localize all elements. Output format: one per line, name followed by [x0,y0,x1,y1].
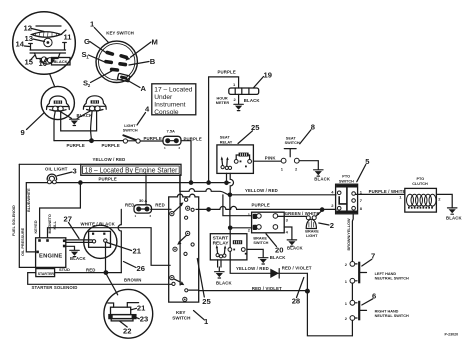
svg-text:PTO: PTO [342,175,350,179]
svg-text:SWITCH: SWITCH [285,141,300,145]
svg-text:PTO: PTO [417,177,425,181]
svg-text:PURPLE: PURPLE [144,136,162,141]
svg-text:BRAKE: BRAKE [305,230,319,234]
svg-text:BLACK: BLACK [54,59,68,64]
svg-text:RELAY: RELAY [220,141,233,145]
svg-text:Console: Console [154,109,179,116]
svg-text:B: B [150,57,156,66]
svg-text:17 – Located: 17 – Located [154,86,192,93]
svg-text:RED: RED [155,203,165,208]
svg-text:BLUE/WHITE: BLUE/WHITE [27,188,31,212]
svg-text:LIGHT: LIGHT [124,124,136,128]
svg-text:BLACK: BLACK [446,215,463,220]
svg-text:YELLOW / RED: YELLOW / RED [236,266,269,271]
svg-text:RELAY: RELAY [213,240,230,246]
svg-text:28: 28 [292,297,300,306]
svg-text:SWITCH: SWITCH [123,129,138,133]
svg-text:25: 25 [202,297,211,306]
svg-text:RED: RED [125,203,135,208]
svg-text:19: 19 [264,71,272,80]
svg-text:SWITCH: SWITCH [339,180,354,184]
svg-text:12: 12 [24,24,32,33]
svg-text:2: 2 [330,221,334,230]
svg-text:Instrument: Instrument [154,101,185,108]
svg-text:YELLOW / RED: YELLOW / RED [93,157,126,162]
svg-text:NEUTRAL SWITCH: NEUTRAL SWITCH [375,277,409,281]
svg-text:METER: METER [216,101,230,105]
svg-text:18 – Located By Engine Starter: 18 – Located By Engine Starter [85,168,178,175]
svg-text:22: 22 [123,326,131,335]
svg-text:PINK: PINK [265,156,277,161]
svg-text:BROWN/YELLOW: BROWN/YELLOW [347,218,351,250]
svg-text:21: 21 [137,304,146,313]
svg-text:SEAT: SEAT [220,136,231,140]
svg-text:PURPLE: PURPLE [102,143,120,148]
svg-text:BLACK: BLACK [70,256,87,261]
svg-text:14: 14 [16,40,25,49]
svg-text:RED: RED [86,268,96,273]
svg-text:PURPLE: PURPLE [218,69,236,74]
svg-text:STUD: STUD [59,267,70,272]
svg-text:21: 21 [133,247,142,256]
svg-text:BLACK: BLACK [244,98,261,103]
svg-text:LEFT HAND: LEFT HAND [375,272,397,276]
svg-text:BLACK: BLACK [77,113,94,118]
svg-text:NEUTRAL SWITCH: NEUTRAL SWITCH [375,314,409,318]
svg-text:SWITCH: SWITCH [172,316,191,321]
svg-text:SEAT: SEAT [286,137,297,141]
svg-text:BLACK: BLACK [270,255,287,260]
svg-text:PURPLE: PURPLE [252,203,270,208]
svg-text:M: M [152,38,158,47]
svg-text:RED / VIOLET: RED / VIOLET [252,286,282,291]
svg-text:LIGHT: LIGHT [306,234,318,238]
svg-text:26: 26 [137,264,145,273]
svg-text:STARTER: STARTER [38,272,55,276]
svg-text:YELLOW / RED: YELLOW / RED [245,188,278,193]
svg-text:7.5A: 7.5A [167,129,176,134]
svg-text:ENGINE: ENGINE [39,254,62,260]
svg-text:PURPLE / WHITE: PURPLE / WHITE [369,189,406,194]
svg-text:RED / VIOLET: RED / VIOLET [282,266,312,271]
svg-text:HOUR: HOUR [217,97,228,101]
svg-text:BLACK: BLACK [216,280,233,285]
svg-text:23: 23 [140,315,148,324]
svg-text:CLUTCH: CLUTCH [412,182,428,186]
svg-text:BLACK: BLACK [287,245,304,250]
svg-text:9: 9 [21,128,25,137]
svg-text:3: 3 [73,167,77,176]
svg-text:11: 11 [64,33,73,42]
svg-text:BRAKE: BRAKE [253,236,267,240]
svg-text:PURPLE: PURPLE [99,176,117,181]
svg-text:Under: Under [154,94,173,101]
svg-text:RIGHT HAND: RIGHT HAND [375,309,399,313]
svg-text:FUEL SOLENOID: FUEL SOLENOID [12,205,16,236]
svg-text:STARTER SOLENOID: STARTER SOLENOID [32,285,78,290]
svg-text:27: 27 [64,215,72,224]
svg-text:BLACK: BLACK [314,176,331,181]
svg-text:G: G [84,37,90,46]
svg-text:KEY: KEY [176,310,185,315]
svg-text:SWITCH: SWITCH [253,241,268,245]
svg-text:KEY SWITCH: KEY SWITCH [106,30,133,35]
svg-text:A: A [141,84,147,93]
svg-text:P-23020: P-23020 [445,333,459,337]
svg-text:BROWN: BROWN [124,278,141,283]
svg-text:PURPLE: PURPLE [67,143,85,148]
svg-text:KEYED: KEYED [34,220,38,233]
svg-text:15: 15 [25,58,34,67]
svg-text:MAGNETO: MAGNETO [48,214,52,233]
svg-text:13: 13 [25,34,33,43]
svg-text:10: 10 [39,59,47,68]
svg-text:OIL LIGHT: OIL LIGHT [45,166,68,171]
svg-text:OIL PRESSURE: OIL PRESSURE [21,227,25,256]
